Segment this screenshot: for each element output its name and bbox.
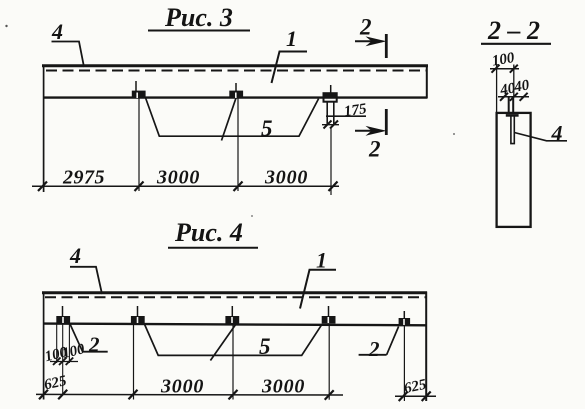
tick at x=133 <box>129 390 138 400</box>
svg-text:2: 2 <box>359 15 372 40</box>
dim 40 40 (section) <box>498 77 531 101</box>
plate 4 (fig4) <box>322 306 336 324</box>
bolt end tick marks <box>322 124 339 126</box>
diagonal to plate 3 (fig4) <box>210 324 236 361</box>
section mark 2 upper (fig3) <box>355 15 387 59</box>
svg-text:1: 1 <box>286 26 297 51</box>
tick at x=333 <box>329 182 338 192</box>
plate 2 (fig3) <box>229 83 243 98</box>
dim 175 leader (fig3) <box>326 101 368 120</box>
beam bottom chord (fig3) <box>43 96 427 98</box>
extension lines (section dims) <box>496 64 498 113</box>
bolt head plate (section) <box>506 114 519 117</box>
dimension line (fig3) <box>32 185 339 187</box>
svg-text:2: 2 <box>368 337 380 361</box>
svg-text:2 – 2: 2 – 2 <box>487 16 540 45</box>
recess trapezoid item 5 (fig3) <box>146 98 319 136</box>
svg-text:2: 2 <box>368 137 381 162</box>
svg-text:3000: 3000 <box>261 376 305 398</box>
plate 3 (fig4) <box>225 306 239 324</box>
svg-text:4: 4 <box>69 243 81 268</box>
label 4 leader (fig4) <box>69 243 102 294</box>
dim 625 (fig4 left) <box>43 373 69 393</box>
title 2-2 <box>481 16 551 45</box>
svg-text:3000: 3000 <box>156 167 200 189</box>
beam dashed plate line (fig3) <box>46 70 427 72</box>
extension below plate 4 (fig4) <box>328 324 330 400</box>
dim 100 100 (fig4 left) <box>43 341 87 365</box>
svg-text:5: 5 <box>259 334 271 359</box>
title Рис. 3 <box>148 3 250 32</box>
plate 1 (fig3) <box>132 81 146 98</box>
svg-text:40: 40 <box>512 77 531 96</box>
extension line below plate 3 (fig3) <box>330 128 332 195</box>
recess trapezoid item 5 (fig4) <box>144 324 321 355</box>
plate 1 anchor extension lines (fig4) <box>56 324 58 363</box>
svg-text:Рис. 4: Рис. 4 <box>174 218 243 247</box>
svg-text:2: 2 <box>88 333 100 357</box>
extension below plate 2 (fig4) <box>133 324 135 400</box>
label 4 leader (section) <box>514 121 567 146</box>
svg-text:2975: 2975 <box>62 167 105 189</box>
extension below plate 3 (fig4) <box>232 324 234 400</box>
svg-text:3000: 3000 <box>264 167 308 189</box>
beam left edge (fig3) + dim extension <box>43 65 45 193</box>
beam top chord (fig4) <box>42 291 427 294</box>
diagonal to plate 2 (fig3) <box>222 98 237 141</box>
tick at x=62.7 <box>58 390 67 400</box>
label 2 leader left (fig4) <box>70 324 108 357</box>
svg-text:175: 175 <box>343 101 368 120</box>
svg-text:3000: 3000 <box>160 376 204 398</box>
tick at x=238 <box>234 182 243 192</box>
plate 1 (fig4) <box>56 306 70 324</box>
label 1 leader (fig4) <box>300 248 336 309</box>
bolt projections above column <box>508 97 510 113</box>
beam bottom chord (fig4) <box>43 324 427 326</box>
bolt shank (section) <box>511 117 514 144</box>
scan speck center <box>251 215 253 217</box>
beam right edge (fig4) + dim extension <box>425 292 427 402</box>
dim 625 right (fig4) <box>395 377 436 401</box>
plate 3 with anchor bolt (fig3) <box>322 85 339 129</box>
beam right edge (fig3) <box>426 65 428 99</box>
extension below plate 5 (fig4) <box>403 326 405 401</box>
beam top chord (fig3) <box>42 64 428 67</box>
tick at x=42 <box>38 182 47 192</box>
extension line below plate 2 (fig3) <box>237 98 239 191</box>
main dimension line (fig4) <box>36 393 343 396</box>
label 2 leader right (fig4) <box>359 327 399 362</box>
svg-text:5: 5 <box>261 116 273 141</box>
plate 2 (fig4) <box>131 306 145 324</box>
label 1 leader (fig3) <box>272 26 308 83</box>
tick at x=329 <box>325 390 334 400</box>
beam left edge (fig4) + dim extension <box>43 292 45 400</box>
plate 5 (fig4) <box>399 311 411 326</box>
dim 100 (section) <box>490 50 519 73</box>
section mark 2 lower (fig3) <box>355 109 387 162</box>
scan speck mid right <box>453 133 455 135</box>
svg-text:4: 4 <box>551 121 563 146</box>
svg-text:Рис. 3: Рис. 3 <box>164 3 233 32</box>
tick at x=139 <box>135 182 144 192</box>
tick at x=43 <box>39 390 48 400</box>
column outline (section 2-2) <box>497 113 531 227</box>
tick at x=233 <box>229 390 238 400</box>
bolt shank below plate 3 <box>326 102 328 125</box>
label 4 leader (fig3) <box>51 19 84 67</box>
title Рис. 4 <box>168 218 258 248</box>
svg-text:4: 4 <box>51 19 63 44</box>
beam dashed plate line (fig4) <box>45 296 426 298</box>
svg-text:1: 1 <box>316 248 327 273</box>
scan speck top left <box>5 25 7 27</box>
extension line below plate 1 (fig3) <box>138 98 140 191</box>
